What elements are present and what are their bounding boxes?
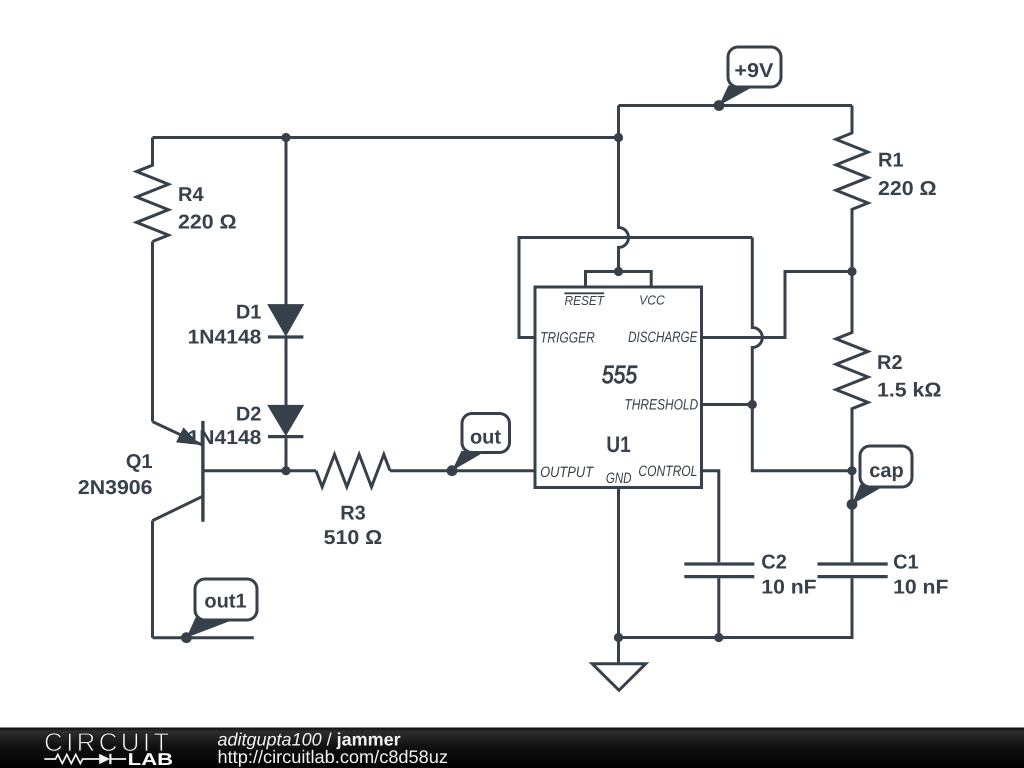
- node junction: [281, 133, 290, 142]
- svg-text:LAB: LAB: [128, 750, 174, 768]
- label Q1 value: [78, 451, 153, 499]
- wire: [519, 238, 752, 338]
- resistor R4: [137, 138, 169, 242]
- wire: [151, 242, 154, 422]
- diode D2: [268, 405, 303, 436]
- node out1 flag: [181, 579, 257, 643]
- wire: [619, 106, 629, 272]
- wire: [153, 136, 619, 139]
- svg-text:C1: C1: [893, 551, 919, 573]
- wire: [452, 469, 535, 472]
- capacitor C1: [818, 564, 888, 577]
- wire: [752, 405, 852, 471]
- wire: [286, 469, 316, 472]
- wire: [153, 636, 254, 639]
- svg-text:CONTROL: CONTROL: [638, 463, 697, 480]
- svg-text:R4: R4: [178, 184, 204, 206]
- svg-text:THRESHOLD: THRESHOLD: [624, 397, 698, 414]
- node junction: [614, 633, 623, 642]
- node out flag: [447, 414, 510, 477]
- node junction: [714, 633, 723, 642]
- label R1 value: [878, 149, 937, 200]
- node junction: [614, 133, 623, 142]
- label R4 value: [178, 184, 237, 234]
- wire: [390, 469, 452, 472]
- wire: [702, 471, 719, 563]
- node junction: [748, 400, 757, 409]
- node junction: [614, 267, 623, 276]
- svg-text:220 Ω: 220 Ω: [178, 212, 237, 234]
- svg-text:out: out: [470, 427, 501, 449]
- node junction: [847, 466, 856, 475]
- svg-text:RESET: RESET: [565, 293, 605, 308]
- svg-text:DISCHARGE: DISCHARGE: [628, 329, 698, 346]
- label C2 value: [761, 551, 816, 598]
- diode D1: [268, 305, 303, 337]
- svg-text:OUTPUT: OUTPUT: [540, 464, 595, 481]
- wire: [717, 578, 720, 637]
- svg-text:D2: D2: [236, 404, 262, 426]
- wire: [285, 438, 288, 471]
- svg-text:cap: cap: [869, 460, 903, 482]
- wire: [752, 238, 762, 405]
- node junction dots: [281, 133, 856, 642]
- label R3 value: [324, 503, 383, 549]
- svg-text:http://circuitlab.com/c8d58uz: http://circuitlab.com/c8d58uz: [218, 747, 449, 767]
- logo CircuitLab: [44, 727, 174, 768]
- svg-text:GND: GND: [606, 470, 632, 487]
- svg-text:2N3906: 2N3906: [78, 477, 153, 499]
- svg-text:510 Ω: 510 Ω: [324, 527, 383, 549]
- wire: [285, 138, 288, 305]
- svg-text:+9V: +9V: [734, 60, 774, 82]
- wire: [619, 104, 853, 107]
- svg-text:R3: R3: [340, 503, 366, 525]
- svg-text:VCC: VCC: [639, 293, 665, 308]
- svg-text:Q1: Q1: [126, 451, 153, 473]
- wire: [619, 578, 853, 637]
- node +9V flag: [714, 47, 781, 111]
- resistor R2: [836, 272, 868, 471]
- transistor Q1: [153, 421, 203, 522]
- svg-text:555: 555: [602, 361, 637, 389]
- IC U1 555 timer box: [535, 287, 702, 488]
- pin RESET: [564, 293, 605, 308]
- node junction: [281, 466, 290, 475]
- svg-text:10 nF: 10 nF: [761, 576, 816, 598]
- wire: [702, 272, 852, 338]
- wire: [617, 488, 620, 638]
- svg-text:C2: C2: [761, 551, 787, 573]
- wire: [702, 403, 752, 406]
- resistor R1: [836, 106, 868, 272]
- wire: [203, 469, 286, 472]
- svg-text:10 nF: 10 nF: [893, 576, 948, 598]
- wire: [151, 521, 154, 638]
- svg-text:out1: out1: [204, 591, 246, 613]
- label C1 value: [893, 551, 948, 598]
- svg-text:U1: U1: [606, 432, 630, 457]
- wire: [851, 471, 854, 563]
- svg-text:1N4148: 1N4148: [188, 327, 262, 349]
- svg-text:TRIGGER: TRIGGER: [540, 330, 595, 347]
- node junction: [847, 267, 856, 276]
- svg-text:D1: D1: [236, 302, 262, 324]
- wire: [586, 272, 652, 288]
- svg-text:1N4148: 1N4148: [188, 427, 262, 449]
- wire: [285, 339, 288, 406]
- label D2 value: [188, 404, 262, 449]
- node cap flag: [847, 446, 912, 510]
- svg-text:R1: R1: [878, 149, 904, 171]
- footer bar: [0, 728, 1024, 768]
- ground: [592, 638, 646, 691]
- resistor R3: [316, 455, 390, 487]
- svg-text:1.5 kΩ: 1.5 kΩ: [877, 380, 942, 402]
- label D1 value: [188, 302, 262, 349]
- svg-text:220 Ω: 220 Ω: [878, 178, 937, 200]
- capacitor C2: [684, 564, 754, 577]
- label R2 value: [877, 352, 942, 402]
- svg-text:R2: R2: [877, 352, 903, 374]
